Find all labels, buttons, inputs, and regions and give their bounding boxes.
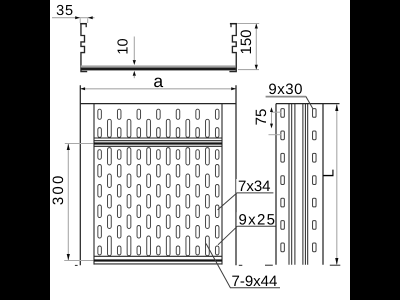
plan view: perforation slots, upper section, short slots columns A touching bead (98, 128, 219, 138)
transverse bead 2: thick dark line (94, 259, 222, 261)
label 9x25: underline (237, 225, 276, 227)
dimension 75: bottom arrow (outward) (270, 124, 273, 129)
dimension 300: dimension line (67, 144, 69, 261)
transverse bead 1: thick dark line (94, 142, 222, 144)
dimension 75: top arrow (outward) (270, 107, 273, 112)
plan view: middle section slots, columns B (108, 148, 210, 256)
plan view: middle section slots, columns A (98, 150, 219, 255)
label 7x34: leader line (218, 193, 237, 210)
transverse bead 1: line 2 (94, 140, 222, 142)
cross-section view: left rail inner lip (85, 24, 87, 27)
cross-section view: tray bottom plate (dark sheet) (81, 68, 236, 71)
dimension 10: upper arrow (down) (133, 60, 136, 65)
dimension 300: top arrow (67, 144, 70, 150)
svg-text:75: 75 (253, 109, 270, 126)
label 9x30: leader line (306, 96, 313, 108)
transverse bead 2: line 3 (94, 263, 222, 265)
side view: bottom right tick (L extension) (330, 264, 341, 266)
dimension 10: lower dimension line (133, 76, 135, 78)
dimension 300: bottom arrow (67, 254, 70, 260)
cross-section view: right side rail wall with stiffening notches and bottom foot (229, 23, 236, 71)
side view: rib line 3 (294, 104, 296, 265)
label 7-9x44: leader line (206, 244, 230, 288)
side view: bottom left tick (265, 264, 273, 266)
side view: top edge with L extension (276, 103, 340, 105)
transverse bead 2: line 1 (94, 255, 222, 257)
dimension 35: right arrow (88, 16, 93, 19)
plan view: left outer edge / extension of dimension a (79, 85, 81, 265)
dimension 35: right extension line (87, 18, 89, 23)
dimension a: dimension line (80, 88, 236, 90)
svg-text:9x30: 9x30 (268, 81, 303, 98)
label 9x30: underline (266, 96, 306, 98)
svg-text:L: L (320, 169, 337, 177)
label 7x34: underline (237, 192, 273, 194)
dimension L: bottom arrow (335, 258, 338, 265)
plan view: perforation slots, upper section, columns B touching bead (108, 119, 210, 137)
dimension 300: bottom extension line (64, 260, 93, 262)
label 9x25: leader line (218, 226, 237, 245)
dimension 10: upper dimension line (133, 37, 135, 61)
dimension 150: dimension line (255, 24, 257, 70)
svg-text:9x25: 9x25 (239, 212, 277, 229)
dimension 35: left arrow (75, 16, 80, 19)
dimension 150: top extension line (237, 23, 259, 25)
side view: rib line 4 (302, 104, 304, 265)
plan view: perforation slots, upper section, long slots columns A (98, 109, 219, 119)
side view: rib line 2 (291, 104, 293, 265)
dimension 150: top arrow (255, 24, 258, 29)
dimension L: dimension line (336, 104, 338, 265)
dimension 75: bottom extension line (to slot centre) (269, 134, 282, 136)
label 7-9x44: underline (230, 287, 280, 289)
dimension a: left arrow (80, 87, 85, 90)
side view: right edge (322, 104, 324, 265)
dimension L: top arrow (335, 104, 338, 111)
cross-section view: right rail inner lip (230, 24, 232, 27)
plan view: top edge (80, 103, 236, 105)
cross-section view: tray bottom plate (top surface, grey) (81, 65, 236, 67)
cross-section view: left side rail wall with stiffening notches and bottom foot (81, 23, 87, 71)
dimension 150: bottom arrow (255, 65, 258, 70)
plan view: right outer edge / extension of dimension a (235, 85, 237, 265)
cross-section view: left rail top flange (rolled edge) (80, 23, 87, 25)
transverse bead 1: line 1 (94, 137, 222, 139)
plan view: left inner flange line (93, 104, 95, 265)
plan view: right inner flange line (221, 104, 223, 265)
side view: rib line 5 (304, 104, 306, 265)
side view: left edge (275, 104, 277, 265)
svg-text:300: 300 (50, 173, 67, 205)
dimension 35: dimension line (52, 17, 95, 19)
svg-text:a: a (153, 71, 163, 91)
dimension 10: lower arrow (up) (133, 71, 136, 76)
dimension 35: left extension line (79, 18, 81, 23)
label 9x25: white backing (237, 212, 276, 226)
left black letterbox bar (0, 0, 50, 300)
transverse bead 1: line 4 (94, 145, 222, 147)
side view: right column of 9x30 slots (313, 109, 317, 252)
side view: left column of 9x30 slots (281, 109, 285, 252)
dimension 300: top extension line (65, 143, 94, 145)
plan view: bottom left tick (75, 264, 78, 266)
svg-text:35: 35 (56, 3, 74, 19)
dimension 150: bottom extension line (238, 69, 259, 71)
svg-text:7-9x44: 7-9x44 (232, 273, 278, 290)
svg-text:7x34: 7x34 (238, 178, 271, 195)
dimension a: right arrow (231, 87, 236, 90)
right black letterbox bar (350, 0, 400, 300)
dimension 75: top extension line (to slot centre) (272, 111, 282, 113)
side view: rib line 1 (288, 104, 290, 265)
svg-text:10: 10 (116, 38, 132, 54)
svg-text:150: 150 (238, 29, 255, 54)
cross-section view: right rail top flange (rolled edge) (230, 23, 237, 25)
dimension 75: dimension line (271, 111, 273, 125)
side view: rib line 6 (307, 104, 309, 265)
plan view: bottom right tick (239, 264, 243, 266)
label 7x34: white backing (236, 179, 274, 193)
